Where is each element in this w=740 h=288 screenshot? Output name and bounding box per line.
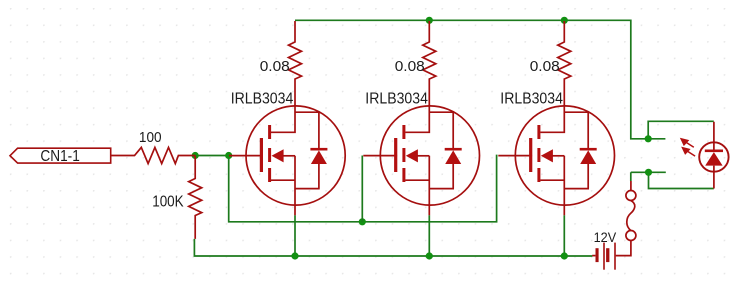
svg-text:CN1-1: CN1-1: [40, 148, 79, 165]
svg-text:IRLB3034: IRLB3034: [231, 90, 294, 108]
svg-text:12V: 12V: [594, 230, 617, 245]
svg-text:100K: 100K: [152, 194, 184, 211]
svg-text:100: 100: [139, 129, 162, 145]
svg-text:0.08: 0.08: [395, 58, 425, 75]
svg-text:IRLB3034: IRLB3034: [365, 90, 428, 108]
svg-text:0.08: 0.08: [260, 58, 290, 75]
svg-text:0.08: 0.08: [530, 58, 560, 75]
svg-text:IRLB3034: IRLB3034: [500, 90, 563, 108]
